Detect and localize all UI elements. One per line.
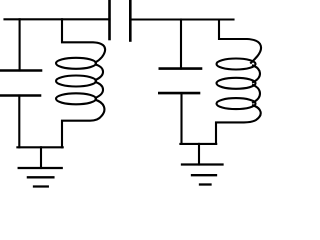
capacitor C1 bottom plate: [0, 94, 40, 97]
wire: left bottom bus: [17, 146, 62, 148]
ground left bar 1: [19, 167, 62, 169]
capacitor C2 top plate: [160, 67, 201, 70]
ground right bar 3: [200, 183, 211, 185]
inductor L1 turn 2: [56, 76, 96, 87]
coupling capacitor C3 left plate: [108, 0, 111, 39]
inductor L2 turn 3: [217, 98, 256, 109]
wire: C1 bottom lead: [18, 96, 20, 148]
inductor L1 turn 3: [56, 93, 96, 104]
wire: L2 top lead: [219, 20, 261, 63]
wire: right ground stem: [198, 144, 200, 165]
inductor L2 turn 2: [217, 78, 256, 89]
wire: top rail left: [5, 18, 110, 20]
ground right bar 2: [192, 174, 216, 176]
wire: right bottom bus: [180, 143, 216, 145]
inductor L1 curl 2: [96, 82, 104, 98]
wire: C2 top lead: [180, 20, 182, 69]
wire: L1 top lead: [62, 19, 105, 62]
wire: left ground stem: [40, 147, 42, 168]
inductor L2 curl 2: [253, 85, 260, 103]
inductor L1 turn 1: [56, 58, 96, 69]
wire: top rail right: [130, 18, 233, 20]
wire: C1 top lead: [19, 19, 21, 70]
ground left bar 2: [28, 176, 54, 178]
coupling capacitor C3 right plate: [129, 0, 132, 41]
wire: C2 bottom lead: [180, 93, 182, 144]
capacitor C2 bottom plate: [159, 92, 199, 95]
inductor L2 curl 1: [253, 66, 260, 83]
ground right bar 1: [182, 163, 223, 165]
ground left bar 3: [34, 185, 48, 187]
inductor L1 curl 1: [96, 65, 104, 81]
wire: L1 bottom lead: [62, 100, 104, 148]
inductor L2 turn 1: [217, 59, 256, 70]
wire: L2 bottom lead: [216, 105, 261, 144]
capacitor C1 top plate: [0, 69, 41, 72]
